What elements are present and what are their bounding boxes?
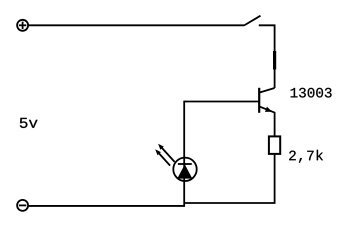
base bar (258, 88, 260, 113)
wire resistor to bottom rail (right segment) (184, 155, 275, 203)
label 13003 (291, 88, 332, 98)
wire bottom rail left segment from - terminal (28, 205, 185, 207)
wire overlap thick segment on collector feed (273, 51, 276, 70)
wire vertical through LED down to bottom rail (183, 101, 185, 207)
switch S1 lever (244, 16, 261, 26)
label 2,7k (289, 150, 323, 163)
LED light arrow 1 (upper) (158, 144, 175, 162)
LED triangle (anode, pointing up) (177, 164, 192, 178)
wire base from LED node to transistor base (184, 101, 259, 103)
emitter lead (259, 106, 274, 112)
LED light arrow 2 (lower) (155, 149, 170, 165)
emitter arrowhead (265, 107, 272, 112)
LED cathode bar (178, 163, 192, 165)
LED D1 (173, 158, 196, 181)
label 5v (20, 118, 38, 128)
terminal + (positive supply) (17, 20, 28, 31)
wire top rail from + to switch (28, 24, 244, 26)
resistor R1 (2,7k) (269, 136, 280, 154)
transistor Q1 (NPN 13003) (259, 88, 274, 113)
terminal - (negative supply) (17, 200, 28, 211)
wire emitter to resistor (274, 112, 276, 136)
wire switch right contact to collector (down to transistor) (259, 25, 275, 88)
LED circle (173, 158, 196, 181)
collector lead (259, 88, 274, 93)
